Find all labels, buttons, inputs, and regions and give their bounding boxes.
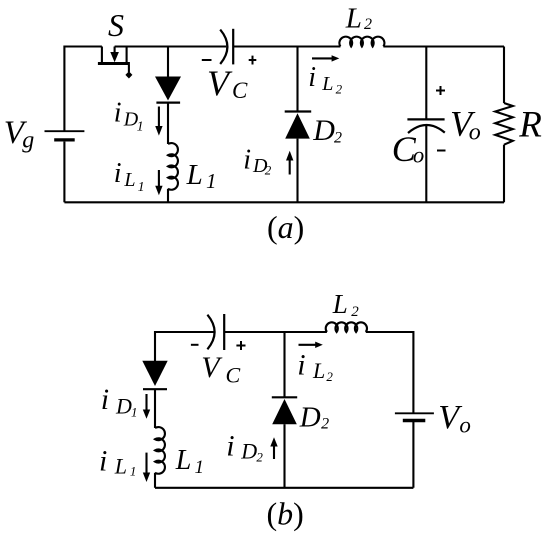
svg-text:S: S bbox=[108, 7, 124, 43]
svg-text:(a): (a) bbox=[267, 209, 304, 245]
current arrow iD2 (b) bbox=[270, 437, 277, 459]
wire D2 branch top (a) bbox=[296, 47, 298, 112]
svg-text:VC: VC bbox=[201, 351, 240, 388]
svg-text:L2: L2 bbox=[332, 289, 359, 320]
svg-text:Vg: Vg bbox=[4, 115, 35, 153]
svg-text:VC: VC bbox=[207, 63, 248, 103]
wire top-left (b) bbox=[155, 332, 214, 361]
wire right branch bottom (b) bbox=[412, 422, 414, 488]
svg-text:Vo: Vo bbox=[438, 399, 471, 437]
inductor L1 (a) bbox=[168, 143, 178, 190]
switch S (a) bbox=[98, 47, 132, 79]
svg-text:L1: L1 bbox=[186, 159, 217, 193]
inductor L1 (b) bbox=[155, 427, 165, 474]
svg-text:iL2: iL2 bbox=[297, 348, 333, 383]
current arrow iD2 (a) bbox=[286, 151, 293, 175]
svg-text:R: R bbox=[518, 105, 542, 146]
capacitor C (b) bbox=[207, 314, 224, 350]
plus sign of VC (b) bbox=[236, 341, 245, 350]
voltage source Vg (a) bbox=[45, 131, 85, 140]
current arrow iL2 (b) bbox=[299, 342, 323, 348]
current arrow iL1 (b) bbox=[143, 453, 150, 482]
wire top right (a) bbox=[234, 45, 341, 47]
wire D1 to L1 (a) bbox=[167, 103, 169, 144]
svg-text:iD1: iD1 bbox=[114, 97, 144, 134]
current arrow iL1 (a) bbox=[155, 170, 162, 195]
svg-text:iL1: iL1 bbox=[99, 444, 136, 478]
wire D2 to bottom (b) bbox=[283, 424, 285, 488]
current arrow iD1 (a) bbox=[155, 107, 162, 136]
wire top middle (a) bbox=[115, 45, 227, 47]
resistor R (a) bbox=[495, 103, 513, 145]
minus sign of Vo (a) bbox=[437, 150, 446, 152]
svg-text:(b): (b) bbox=[267, 496, 304, 532]
diode D1 (a) bbox=[155, 77, 181, 103]
wire after L2 to right corner (a) bbox=[383, 45, 504, 47]
wire L1 to bottom (b) bbox=[154, 473, 156, 488]
svg-text:iL2: iL2 bbox=[308, 62, 342, 97]
svg-text:D2: D2 bbox=[299, 402, 329, 434]
wire left rail bottom (a) bbox=[63, 142, 65, 203]
capacitor C (a) bbox=[220, 29, 233, 65]
wire top-left rail (a) bbox=[64, 47, 102, 132]
wire Co branch top (a) bbox=[425, 47, 427, 120]
inductor L2 (b) bbox=[326, 322, 367, 332]
svg-text:iD2: iD2 bbox=[243, 145, 272, 178]
plus sign of Vo (a) bbox=[436, 86, 445, 95]
wire D1 branch top (a) bbox=[167, 47, 169, 77]
svg-text:iD1: iD1 bbox=[101, 383, 138, 419]
wire right branch top (a) bbox=[503, 47, 505, 104]
minus sign of VC (b) bbox=[191, 344, 199, 346]
current arrow iD1 (b) bbox=[143, 394, 150, 419]
plus sign of VC (a) bbox=[249, 56, 257, 65]
wire L1 to bottom (a) bbox=[167, 189, 169, 203]
capacitor Co (a) bbox=[407, 119, 444, 133]
current arrow iL2 (a) bbox=[312, 55, 339, 61]
diode D2 (a) bbox=[285, 112, 312, 139]
svg-text:L1: L1 bbox=[175, 445, 204, 478]
inductor L2 (a) bbox=[339, 37, 384, 47]
wire top middle (b) bbox=[225, 331, 327, 333]
diode D2 (b) bbox=[272, 397, 297, 424]
wire Co to bottom (a) bbox=[425, 126, 427, 203]
wire top right (b) bbox=[366, 332, 414, 413]
svg-text:L2: L2 bbox=[345, 2, 372, 34]
wire D2 to bottom (a) bbox=[296, 139, 298, 203]
wire D2 branch top (b) bbox=[283, 332, 285, 397]
wire bottom rail (b) bbox=[155, 487, 413, 489]
voltage source Vo (b) bbox=[395, 413, 434, 420]
wire right branch bottom (a) bbox=[503, 145, 505, 203]
minus sign of VC (a) bbox=[202, 59, 212, 61]
svg-text:iL1: iL1 bbox=[114, 158, 145, 195]
diode D1 (b) bbox=[142, 361, 167, 389]
svg-text:D2: D2 bbox=[312, 114, 342, 147]
svg-text:Co: Co bbox=[392, 129, 424, 169]
wire D1 to L1 (b) bbox=[154, 389, 156, 428]
svg-text:iD2: iD2 bbox=[226, 429, 263, 464]
wire bottom rail (a) bbox=[64, 201, 504, 203]
svg-text:Vo: Vo bbox=[450, 104, 481, 146]
